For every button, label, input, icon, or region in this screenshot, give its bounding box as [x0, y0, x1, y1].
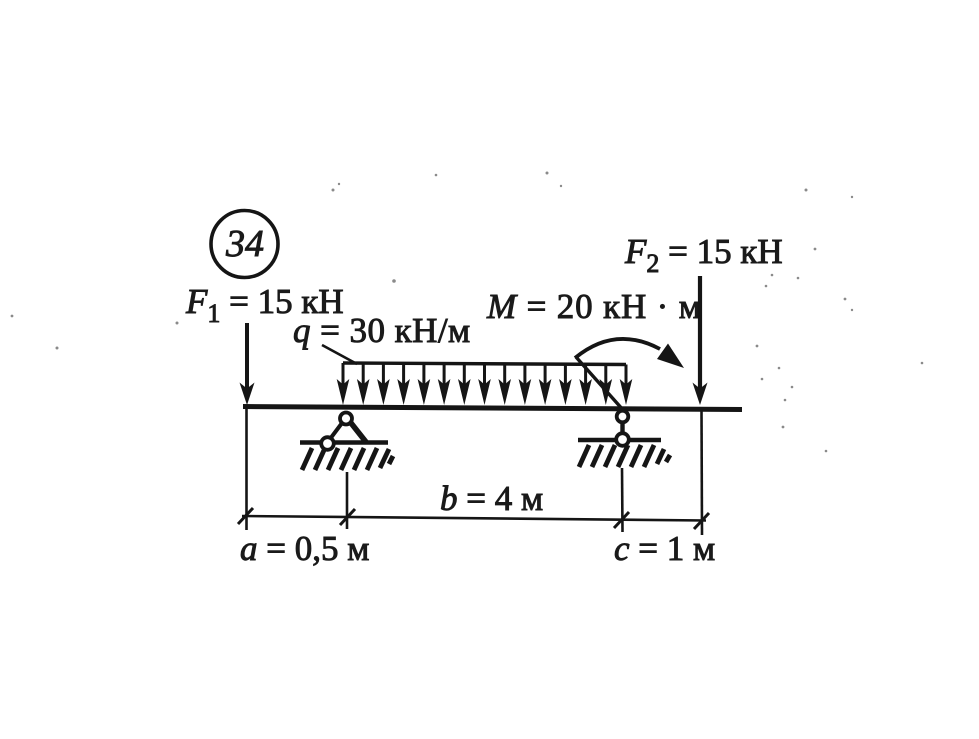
left pin support	[300, 413, 393, 471]
svg-text:a = 0,5 м: a = 0,5 м	[240, 529, 369, 568]
dimension line	[238, 508, 709, 529]
svg-text:b = 4 м: b = 4 м	[440, 479, 543, 518]
svg-text:c = 1 м: c = 1 м	[614, 529, 715, 568]
dimension extension line at right support	[621, 468, 624, 532]
force F1 arrow	[240, 323, 255, 405]
force F2 arrow	[693, 276, 708, 405]
q leader line	[322, 345, 357, 364]
dimension extension line at beam left end	[245, 409, 248, 530]
right roller (link) support	[578, 411, 670, 467]
dimension extension line at left support	[346, 472, 349, 529]
distributed load q arrows	[337, 363, 633, 405]
svg-text:34: 34	[225, 223, 264, 265]
problem number circle 34	[211, 211, 278, 278]
dimension extension line at beam right end	[700, 410, 703, 535]
beam	[243, 407, 742, 410]
svg-text:M = 20 кН · м: M = 20 кН · м	[486, 287, 702, 326]
svg-text:q = 30 кН/м: q = 30 кН/м	[293, 311, 471, 350]
moment M arc arrow	[575, 339, 684, 368]
scan noise specks	[11, 172, 924, 453]
moment M leader line	[576, 357, 624, 411]
